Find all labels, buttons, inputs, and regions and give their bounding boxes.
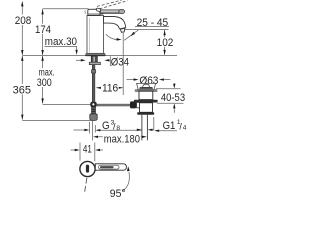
waste flange bbox=[135, 83, 158, 91]
svg-text:116: 116 bbox=[102, 83, 118, 95]
dimension 116 bbox=[96, 33, 123, 95]
supply hose fitting bbox=[90, 107, 97, 120]
svg-text:G: G bbox=[102, 120, 110, 132]
faucet body bbox=[87, 16, 104, 54]
faucet cap bbox=[85, 9, 104, 15]
dimension max.300 bbox=[34, 56, 97, 105]
dimension 40-53 bbox=[156, 84, 185, 113]
svg-text:max.180: max.180 bbox=[104, 133, 140, 145]
svg-text:8: 8 bbox=[116, 125, 120, 132]
svg-text:41: 41 bbox=[83, 144, 92, 156]
dimension 208 bbox=[14, 1, 33, 55]
top view body circle bbox=[80, 161, 95, 176]
thread G3/8 callout bbox=[74, 119, 142, 133]
waste body bbox=[139, 91, 153, 99]
svg-text:208: 208 bbox=[15, 15, 32, 27]
dimension Ø34 bbox=[76, 56, 129, 68]
svg-text:4: 4 bbox=[183, 125, 187, 132]
top view lever bbox=[95, 164, 126, 170]
svg-text:102: 102 bbox=[157, 37, 174, 49]
swivel arc 95 deg bbox=[110, 166, 130, 200]
lever neck bbox=[96, 8, 100, 11]
lever handle bbox=[100, 10, 124, 14]
dimension 365 bbox=[11, 56, 95, 121]
waste locknut bbox=[134, 100, 158, 103]
pop-up rod bbox=[90, 101, 141, 108]
svg-text:Ø34: Ø34 bbox=[111, 57, 129, 69]
lever raised dashed bbox=[97, 0, 128, 9]
svg-text:95°: 95° bbox=[110, 188, 126, 200]
svg-text:40-53: 40-53 bbox=[161, 92, 185, 104]
thread G1 1/4 callout bbox=[137, 117, 187, 132]
svg-text:174: 174 bbox=[35, 24, 51, 36]
dimension 174 bbox=[34, 9, 89, 56]
svg-text:25 - 45: 25 - 45 bbox=[137, 17, 169, 29]
dimension max.180 bbox=[93, 121, 147, 145]
aerator bbox=[120, 28, 125, 32]
waste lower body bbox=[137, 103, 154, 115]
svg-text:365: 365 bbox=[13, 84, 31, 96]
svg-text:G1: G1 bbox=[163, 120, 176, 132]
faucet base bbox=[86, 53, 106, 56]
spout bbox=[104, 16, 126, 29]
dimension 102 bbox=[124, 30, 173, 55]
jet direction arrow bbox=[106, 34, 122, 40]
swivel axis dashed bbox=[85, 178, 87, 193]
deck line bbox=[22, 54, 177, 56]
dimension Ø63 bbox=[127, 75, 171, 87]
label max.30 bbox=[45, 36, 78, 55]
waste tailpipe bbox=[142, 115, 148, 141]
label 25 - 45 bbox=[124, 17, 169, 40]
shank and nut below deck bbox=[89, 56, 100, 104]
top view dimension 41 bbox=[71, 143, 104, 162]
svg-text:300: 300 bbox=[37, 77, 52, 89]
